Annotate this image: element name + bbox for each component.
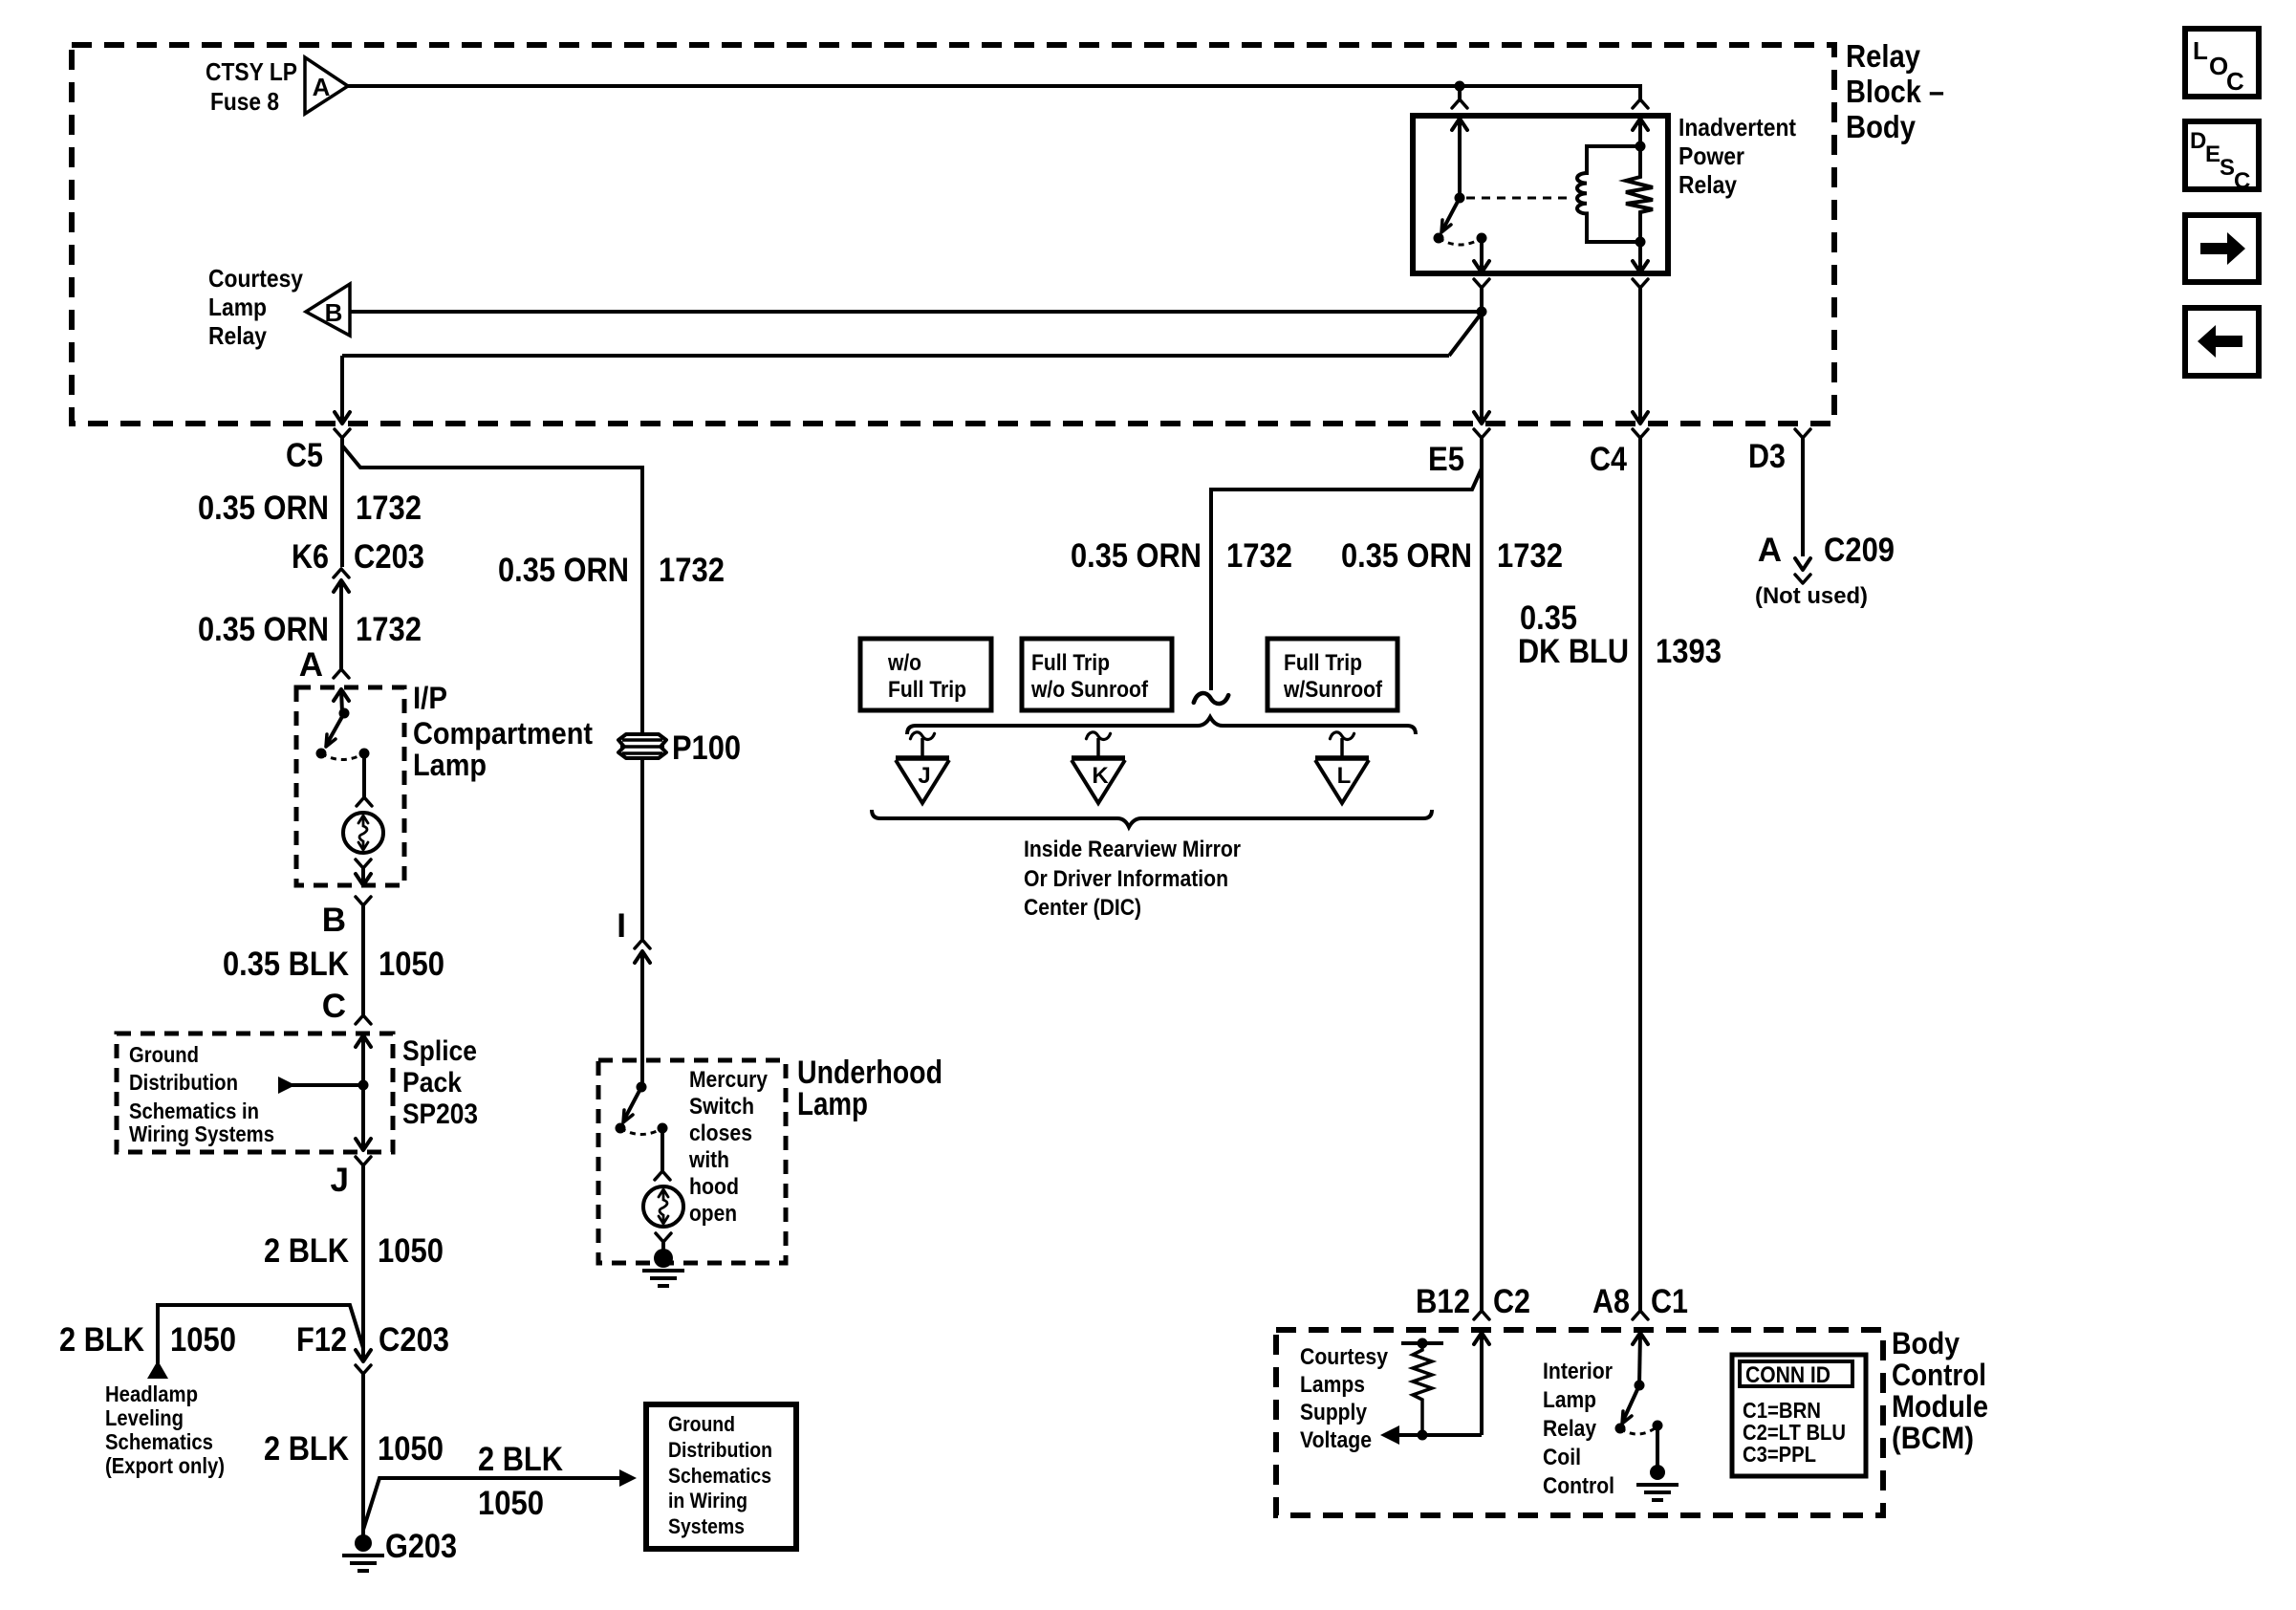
label C4 [1590,441,1627,478]
relay switch arm with arrowhead [1441,198,1460,232]
option box Full Trip w/Sunroof [1267,639,1397,710]
label Interior Lamp Relay Coil Control [1543,1359,1614,1499]
BCM internal resistor (courtesy lamps supply) [1413,1343,1432,1435]
svg-text:0.35 ORN: 0.35 ORN [198,611,329,648]
svg-text:Lamp: Lamp [208,293,267,321]
relay switch common feed with arrow [1452,119,1467,198]
svg-text:1050: 1050 [379,946,444,983]
svg-text:Systems: Systems [668,1514,745,1538]
svg-text:CTSY LP: CTSY LP [206,57,297,86]
branch wire to ground distribution schematics [363,1478,621,1530]
svg-text:Relay: Relay [1679,170,1737,199]
in-line connector C203 terminal F12 (fork) [356,1365,371,1374]
svg-text:A: A [313,73,331,101]
svg-text:Lamps: Lamps [1300,1372,1365,1398]
branch to headlamp leveling schematics [158,1305,363,1363]
label CTSY LP Fuse 8 [206,57,297,116]
label 0.35 ORN 1732 (DIC branch) [1071,537,1292,575]
connector E5 fork below relay block border [1474,429,1489,438]
svg-text:C203: C203 [379,1321,449,1359]
I/P lamp switch arm with arrowhead [326,713,344,747]
option box w/o Full Trip [860,639,991,710]
legend box DESC [2185,121,2259,194]
svg-text:Coil: Coil [1543,1445,1581,1470]
label K6 C203 [292,538,424,576]
svg-text:C: C [2226,67,2244,96]
wire into mercury switch [640,1060,644,1087]
svg-text:D3: D3 [1748,438,1786,475]
svg-text:E5: E5 [1428,441,1464,478]
svg-text:B: B [325,298,343,327]
junction on wire A at relay switch feed [1455,81,1465,100]
overbrace selecting DIC options [907,717,1416,734]
svg-text:Voltage: Voltage [1300,1427,1372,1453]
svg-text:G203: G203 [385,1528,457,1565]
svg-text:J: J [331,1162,349,1199]
svg-text:Splice: Splice [402,1035,477,1067]
svg-text:I: I [617,907,626,945]
connector fork below splice pack (terminal J) [356,1157,371,1165]
arrow out of I/P lamp box [356,874,371,885]
svg-text:1050: 1050 [478,1485,544,1522]
wire to C5: horizontal run with diagonal tap [342,315,1480,356]
label 0.35 DK BLU 1393 [1518,599,1722,670]
wire A: fuse triangle to inadvertent power relay [348,84,1640,99]
underhood lamp upper terminal fork [655,1128,670,1180]
wire segment P100 to connector I [640,758,644,940]
svg-text:Or Driver Information: Or Driver Information [1024,866,1228,892]
svg-text:0.35: 0.35 [1520,599,1577,637]
label Courtesy Lamps Supply Voltage [1300,1344,1389,1453]
svg-text:Pack: Pack [402,1067,462,1099]
wire segment B to C (0.35 BLK 1050) [361,905,365,1015]
svg-text:S: S [2220,155,2235,181]
label Courtesy Lamp Relay [208,264,303,350]
svg-text:F12: F12 [296,1321,347,1359]
svg-text:CONN ID: CONN ID [1745,1362,1830,1388]
svg-text:B12: B12 [1416,1283,1470,1320]
svg-text:1732: 1732 [356,490,422,527]
svg-text:Leveling: Leveling [105,1405,184,1430]
svg-text:Power: Power [1679,141,1744,170]
DIC connector triangle J [896,732,949,803]
label 2 BLK (branch) [478,1441,563,1478]
wire segment C5 to C203 (0.35 ORN 1732) [340,438,344,567]
I/P lamp upper terminal fork [357,753,372,806]
mercury switch dashed throw arc [620,1128,662,1135]
svg-text:with: with [688,1147,729,1173]
label P100 [672,729,741,767]
DIC connector triangle L [1315,732,1369,803]
underhood lamp bulb [643,1186,683,1227]
connector fork below relay box (coil side, wire C4) [1633,279,1648,288]
svg-text:0.35 ORN: 0.35 ORN [498,552,629,589]
arrow out of splice pack [356,1139,371,1150]
in-line connector C203 terminal F12 (arrow) [356,1350,371,1361]
grommet P100 [618,734,666,758]
svg-text:L: L [1337,763,1352,789]
connector fork below relay box (switch output) [1474,279,1489,312]
connector fork into relay box (coil side) [1633,99,1648,108]
output triangle B (Courtesy Lamp Relay) [306,284,350,336]
label 1050 (branch) [478,1485,544,1522]
underhood lamp case ground [642,1249,684,1286]
label E5 [1428,441,1464,478]
body control module dashed box [1276,1330,1883,1515]
label 0.35 ORN 1732 (C5 segment) [198,490,422,527]
svg-text:2 BLK: 2 BLK [264,1430,349,1468]
svg-text:Switch: Switch [689,1094,754,1120]
label 2 BLK 1050 (lower) [264,1430,444,1468]
I/P lamp switch contact dot right [359,749,370,759]
I/P lamp switch contact dot left [316,749,327,759]
inadvertent power relay box [1413,116,1668,273]
relay resistor output arrow at box bottom [1633,242,1648,272]
label 0.35 ORN 1732 (underhood feed) [498,552,725,589]
arrow into splice pack [356,1035,371,1148]
underhood lamp dashed box [598,1060,786,1263]
svg-text:Inadvertent: Inadvertent [1679,113,1796,141]
relay switch pivot dot [1455,193,1465,204]
I/P lamp lower terminal fork [356,859,371,883]
legend box right-arrow [2185,215,2259,282]
label Ground Distribution Schematics in Wiring Systems (solid box) [668,1412,772,1538]
svg-text:0.35 ORN: 0.35 ORN [1071,537,1202,575]
label Body Control Module (BCM) [1892,1326,1988,1455]
svg-text:Body: Body [1846,109,1917,144]
junction dot at relay switch output node [1477,307,1487,317]
svg-text:Block –: Block – [1846,74,1944,109]
svg-text:C2: C2 [1493,1283,1530,1320]
connector C209 fork (terminal A) [1795,575,1810,583]
svg-text:Ground: Ground [668,1412,735,1436]
svg-text:K: K [1092,763,1109,789]
svg-text:0.35 ORN: 0.35 ORN [198,490,329,527]
wire segment J to F12 (2 BLK 1050) [361,1165,365,1359]
svg-text:1732: 1732 [356,611,422,648]
label A8 C1 [1592,1283,1688,1320]
relay coil dashed actuation link [1466,197,1573,200]
svg-text:J: J [918,763,930,789]
BCM driver switch arm with arrowhead [1622,1385,1639,1424]
option box Full Trip w/o Sunroof [1022,639,1172,710]
label A C209 [1758,532,1895,569]
svg-text:Center (DIC): Center (DIC) [1024,895,1141,921]
svg-text:1732: 1732 [1226,537,1292,575]
arrow into I/P compartment lamp box [334,689,349,713]
svg-text:Control: Control [1543,1473,1614,1499]
I/P lamp switch pivot dot [339,708,350,719]
wire C4: relay block to BCM with exit arrow [1633,288,1648,424]
wire B: triangle B to relay switch output junction [350,310,1482,314]
svg-text:C5: C5 [286,437,323,474]
svg-text:Full Trip: Full Trip [1284,650,1362,676]
svg-text:C4: C4 [1590,441,1627,478]
I/P compartment lamp dashed box [296,687,404,885]
legend box left-arrow [2185,308,2259,376]
arrow into BCM at C1 [1633,1333,1648,1385]
BCM driver switch contact dot left [1615,1424,1626,1434]
svg-text:Supply: Supply [1300,1400,1368,1425]
wire D3 (not used) [1795,429,1810,570]
svg-text:0.35 BLK: 0.35 BLK [223,946,349,983]
label Inside Rearview Mirror Or Driver Information Center (DIC) [1024,837,1241,921]
svg-text:C1: C1 [1651,1283,1688,1320]
CONN ID table [1732,1355,1866,1476]
svg-text:2 BLK: 2 BLK [478,1441,563,1478]
label Inadvertent Power Relay [1679,113,1796,199]
label (Not used) [1755,583,1868,609]
option tilde at DIC wire end [1194,693,1228,704]
relay switch output to box bottom with arrow [1474,238,1489,272]
svg-text:Ground: Ground [129,1042,199,1067]
BCM driver switch dashed throw arc [1620,1426,1657,1434]
label 0.35 BLK 1050 [223,946,444,983]
svg-text:w/o Sunroof: w/o Sunroof [1030,677,1149,703]
wire E5: relay block to BCM with exit arrow [1474,312,1489,424]
svg-text:1732: 1732 [659,552,725,589]
connector fork at I/P lamp terminal A [334,669,349,678]
power feed triangle A (CTSY LP Fuse 8) [305,57,348,114]
svg-text:Relay: Relay [1543,1416,1597,1442]
svg-text:Module: Module [1892,1389,1988,1424]
I/P lamp bulb [343,813,383,853]
svg-text:C203: C203 [354,538,424,576]
svg-text:Mercury: Mercury [689,1067,769,1093]
BCM internal wire C2 to supply voltage arrow [1397,1433,1482,1437]
connector fork below I/P lamp box (terminal B) [356,897,371,905]
connector fork into relay box (switch side) [1452,99,1467,108]
mercury switch pivot dot [637,1082,647,1093]
svg-text:2 BLK: 2 BLK [59,1321,144,1359]
relay switch dashed throw arc [1439,238,1482,245]
mercury switch arm with arrowhead [623,1087,641,1122]
relay resistor (in parallel with coil) [1626,119,1653,273]
label terminal J [331,1162,349,1199]
BCM driver switch contact dot right [1653,1421,1663,1431]
svg-text:w/Sunroof: w/Sunroof [1283,677,1383,703]
wire segment E5 to BCM terminal B12 [1480,438,1484,1311]
I/P lamp switch dashed throw arc [321,753,364,760]
svg-text:L: L [2193,36,2208,65]
label D3 [1748,438,1786,475]
svg-text:Fuse 8: Fuse 8 [210,87,279,116]
branch from C5 to underhood lamp feed [342,446,642,734]
svg-text:B: B [322,902,346,939]
svg-text:Schematics: Schematics [668,1464,771,1488]
svg-text:Inside Rearview Mirror: Inside Rearview Mirror [1024,837,1241,862]
svg-text:Relay: Relay [208,321,267,350]
svg-text:Interior: Interior [1543,1359,1613,1384]
svg-text:D: D [2190,128,2206,154]
svg-text:C209: C209 [1824,532,1895,569]
reference triangle up (headlamp leveling) [147,1360,168,1379]
label terminal B [322,902,346,939]
label Relay Block - Body [1846,38,1944,144]
splice pack SP203 dashed box [117,1033,393,1152]
svg-text:closes: closes [689,1120,752,1146]
mercury switch contact dot right [658,1123,668,1134]
svg-text:DK BLU: DK BLU [1518,633,1629,670]
relay switch contact dot left [1434,233,1444,244]
BCM interior lamp relay driver switch pivot dot [1635,1381,1645,1391]
label Ground Distribution Schematics in Wiring Systems (splice) [129,1042,274,1146]
label F12 C203 [296,1321,449,1359]
svg-text:A: A [1758,532,1782,569]
connector fork at BCM terminal B12 [1474,1311,1489,1319]
wire E5 branch to DIC (0.35 ORN 1732) [1211,468,1482,690]
svg-text:1393: 1393 [1656,633,1722,670]
label Splice Pack SP203 [402,1035,478,1130]
svg-text:Courtesy: Courtesy [1300,1344,1389,1370]
svg-text:Wiring Systems: Wiring Systems [129,1121,274,1146]
relay block - body dashed outline [72,45,1834,424]
connector fork at splice pack terminal C [356,1015,371,1024]
svg-text:Schematics in: Schematics in [129,1099,259,1123]
svg-text:C: C [322,988,346,1025]
svg-text:2 BLK: 2 BLK [264,1232,349,1270]
svg-text:1050: 1050 [378,1232,444,1270]
DIC connector triangle K [1072,732,1125,803]
in-line connector C203 terminal K6 (arrow) [334,580,349,669]
svg-text:Distribution: Distribution [668,1438,772,1462]
svg-text:K6: K6 [292,538,329,576]
ground distribution schematics solid box [646,1404,796,1549]
svg-text:Full Trip: Full Trip [1031,650,1110,676]
splice junction dot [358,1080,369,1091]
svg-text:w/o: w/o [887,650,921,676]
wire drop to connector C5 with exit arrow [335,356,350,424]
label I/P Compartment Lamp [413,681,593,782]
label splice terminal C [322,988,346,1025]
svg-text:Compartment: Compartment [413,716,593,751]
svg-text:C3=PPL: C3=PPL [1743,1442,1816,1467]
svg-text:(BCM): (BCM) [1892,1421,1974,1455]
svg-text:Headlamp: Headlamp [105,1382,198,1406]
CONN ID rows C1=BRN C2=LT BLU C3=PPL [1743,1398,1846,1467]
legend box LOC [2185,29,2259,97]
svg-text:C: C [2234,168,2250,194]
svg-text:open: open [689,1201,737,1227]
ground G203 [342,1534,384,1571]
svg-text:1732: 1732 [1497,537,1563,575]
svg-text:Control: Control [1892,1358,1986,1392]
wire segment F12 to G203 (2 BLK 1050) [361,1374,365,1535]
svg-text:0.35 ORN: 0.35 ORN [1341,537,1472,575]
connector C5 fork below relay block border [335,429,350,438]
label 2 BLK 1050 (headlamp branch) [59,1321,236,1359]
svg-text:SP203: SP203 [402,1099,478,1130]
in-line connector I (arrow) [635,951,650,1060]
svg-text:(Export only): (Export only) [105,1453,225,1478]
arrowhead into ground distribution schematics box [619,1469,637,1487]
relay coil junction dot bottom [1635,237,1646,248]
svg-text:Lamp: Lamp [413,748,487,782]
svg-text:Full Trip: Full Trip [888,677,966,703]
svg-text:Distribution: Distribution [129,1070,238,1095]
svg-text:(Not used): (Not used) [1755,583,1868,609]
svg-text:A8: A8 [1592,1283,1630,1320]
arrow into BCM at C2 [1474,1333,1489,1435]
reference arrow into splice junction [278,1077,363,1094]
relay switch contact dot right [1477,233,1487,244]
label Underhood Lamp [797,1055,942,1122]
BCM internal ground wire [1656,1425,1659,1467]
label B12 C2 [1416,1283,1530,1320]
svg-text:Courtesy: Courtesy [208,264,303,293]
label Mercury Switch closes with hood open [688,1067,768,1227]
svg-text:E: E [2205,141,2220,167]
svg-text:1050: 1050 [378,1430,444,1468]
svg-text:hood: hood [689,1174,739,1200]
junction dot at resistor bottom [1418,1430,1428,1441]
mercury switch contact dot left [616,1123,626,1134]
svg-text:1050: 1050 [170,1321,236,1359]
svg-text:A: A [299,646,323,684]
relay coil junction dot top [1635,141,1646,152]
internal arrowhead (courtesy lamps supply voltage) [1380,1425,1399,1445]
label terminal A of I/P compartment lamp [299,646,323,684]
svg-text:Lamp: Lamp [797,1086,868,1122]
connector fork at BCM terminal A8 [1633,1311,1648,1319]
label C5 [286,437,323,474]
svg-text:P100: P100 [672,729,741,767]
underhood lamp lower terminal fork [656,1233,671,1251]
label G203 [385,1528,457,1565]
label 0.35 ORN 1732 (E5 to BCM) [1341,537,1563,575]
label Headlamp Leveling Schematics (Export only) [105,1382,225,1478]
label connector terminal I [617,907,626,945]
relay coil [1577,146,1640,242]
wire segment C4 to BCM terminal A8 (0.35 DK BLU 1393) [1638,438,1642,1311]
label 2 BLK 1050 (upper) [264,1232,444,1270]
svg-text:Lamp: Lamp [1543,1387,1596,1413]
BCM internal ground [1636,1465,1679,1500]
svg-text:I/P: I/P [413,681,447,715]
svg-text:Relay: Relay [1846,38,1921,74]
label 0.35 ORN 1732 (K6 segment) [198,611,422,648]
svg-text:in Wiring: in Wiring [668,1489,747,1512]
underbrace grouping DIC connectors [872,810,1432,827]
svg-text:Schematics: Schematics [105,1429,213,1454]
in-line connector I (fork) [635,940,650,948]
svg-text:Body: Body [1892,1326,1960,1360]
connector C4 fork below relay block border [1633,429,1648,438]
BCM internal resistor top bar [1401,1338,1443,1349]
in-line connector C203 terminal K6 (fork) [334,569,349,577]
